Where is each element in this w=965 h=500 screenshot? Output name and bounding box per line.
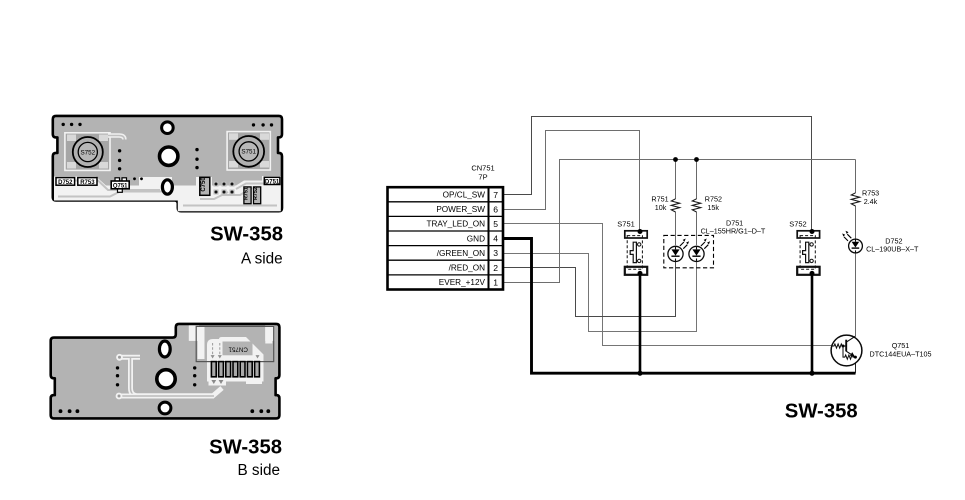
pad grid A bottom middle — [214, 182, 235, 195]
connector body outline B — [196, 326, 274, 361]
hole bottom oval A — [162, 180, 172, 194]
via dots B right column — [193, 366, 196, 386]
hole bottom B — [159, 402, 171, 414]
CN751 island (gray) — [223, 342, 253, 356]
PCB board B outline — [51, 324, 280, 419]
connector region white pour B — [207, 337, 264, 382]
dual LED D751 dashed box — [664, 235, 714, 267]
svg-text:CL–190UB–X–T: CL–190UB–X–T — [866, 244, 919, 253]
wire R751 branch vertical — [675, 160, 677, 246]
junction dot GND/S752 — [809, 371, 814, 376]
svg-text:CN751: CN751 — [471, 164, 494, 173]
via dots A mid-left column — [118, 149, 121, 170]
via dots B left column — [116, 366, 119, 386]
LED D751 red element — [668, 239, 689, 262]
svg-text:S752: S752 — [80, 149, 95, 156]
hole top A — [162, 122, 174, 134]
connector trace columns B — [198, 327, 205, 359]
svg-text:6: 6 — [493, 204, 498, 214]
trace B left loop — [120, 357, 223, 396]
svg-text:OP/CL_SW: OP/CL_SW — [443, 191, 486, 200]
hole middle B — [157, 370, 175, 388]
switch S752 pad area — [65, 133, 110, 171]
wire S752 bottom thick — [811, 272, 814, 373]
switch S752 outer circle — [73, 137, 103, 167]
connector CN751 box — [388, 187, 504, 289]
wire net /RED_ON pin2 to D751 red cathode — [503, 262, 676, 317]
hole top oval B — [159, 341, 170, 357]
wire net POWER_SW pin6 to S751 — [503, 131, 640, 231]
svg-text:CN751: CN751 — [228, 345, 248, 352]
switch S752 corner pads — [67, 135, 108, 169]
via dots A top-right — [252, 123, 273, 126]
svg-text:2: 2 — [493, 263, 498, 273]
small pads near Q751 — [133, 177, 143, 180]
component label R751 (A side, vertical) — [244, 187, 252, 204]
pin hole marks in pour B — [213, 343, 220, 356]
svg-text:/RED_ON: /RED_ON — [449, 264, 485, 273]
component label R753 (A side) — [78, 178, 97, 186]
svg-text:/GREEN_ON: /GREEN_ON — [437, 249, 485, 258]
component label D751 (A side) — [264, 177, 280, 185]
top edge pad cutouts B — [189, 325, 199, 341]
trace band A bottom — [54, 176, 281, 211]
svg-text:A side: A side — [241, 250, 283, 267]
hole middle A — [160, 147, 178, 165]
wire net /GREEN_ON pin3 to D751 green cathode — [503, 254, 697, 332]
svg-text:B side: B side — [237, 462, 280, 479]
switch S751 outer circle — [233, 136, 264, 167]
svg-text:DTC144EUA–T105: DTC144EUA–T105 — [870, 350, 932, 359]
wire R752 branch vertical — [696, 160, 698, 246]
transistor Q751 (A side) — [111, 178, 129, 193]
wire net EVER_+12V pin1 rail — [503, 160, 856, 283]
trace B bottom long — [119, 394, 214, 399]
svg-text:C750: C750 — [201, 177, 207, 192]
component label C750 (A side, vertical) — [200, 177, 210, 196]
svg-text:4: 4 — [493, 234, 498, 244]
switch S751 pad area — [227, 132, 270, 170]
trace lines A bottom — [58, 181, 277, 206]
svg-text:SW-358: SW-358 — [209, 437, 282, 459]
svg-text:CL–155HR/G1–D–T: CL–155HR/G1–D–T — [701, 227, 766, 236]
wire R753/D752/Q751 collector vertical — [855, 160, 857, 337]
svg-text:D751: D751 — [265, 179, 280, 185]
PCB board A outline — [53, 116, 282, 211]
LED D752 — [842, 231, 862, 253]
svg-text:S751: S751 — [617, 219, 635, 228]
LED D751 green element — [689, 239, 710, 262]
via dots A top-left — [62, 123, 82, 126]
svg-text:S751: S751 — [241, 149, 256, 156]
wire net TRAY_LED_ON pin5 to Q751 base — [503, 224, 831, 346]
svg-text:10k: 10k — [655, 203, 667, 212]
pin1 arrows B — [211, 380, 223, 384]
switch S751 inner circle — [239, 142, 258, 161]
svg-text:POWER_SW: POWER_SW — [436, 205, 485, 214]
connector pour lower tabs B — [209, 376, 227, 386]
switch S751 corner pads — [229, 133, 269, 167]
connector pads CN751 B side — [211, 362, 259, 377]
svg-text:SW-358: SW-358 — [210, 223, 283, 245]
svg-text:3: 3 — [493, 248, 498, 258]
svg-text:R752: R752 — [253, 187, 259, 200]
svg-text:TRAY_LED_ON: TRAY_LED_ON — [426, 220, 485, 229]
via dots B bottom-left — [59, 409, 80, 413]
svg-text:7P: 7P — [478, 173, 487, 182]
junction dot GND/S751 — [637, 371, 642, 376]
svg-text:R751: R751 — [244, 187, 250, 200]
component label D752 (A side) — [56, 178, 75, 186]
tact switch S751 — [625, 229, 647, 276]
trace end pads B — [116, 354, 123, 361]
via dots B bottom-right — [250, 409, 270, 413]
component label R752 (A side, vertical) — [253, 187, 261, 204]
tact switch S752 — [797, 229, 819, 276]
switch S752 inner circle — [78, 142, 97, 161]
svg-text:GND: GND — [467, 234, 485, 243]
junction dot rail/R752 — [694, 157, 699, 162]
svg-text:7: 7 — [493, 190, 498, 200]
svg-text:15k: 15k — [707, 203, 719, 212]
wire GND net thick — [503, 239, 856, 374]
svg-text:SW-358: SW-358 — [785, 400, 858, 422]
wire S751 bottom thick — [639, 272, 642, 373]
resistor R752 — [692, 199, 700, 212]
svg-text:5: 5 — [493, 219, 498, 229]
trace stub A upper — [108, 136, 124, 140]
svg-text:Q751: Q751 — [113, 183, 128, 189]
transistor Q751 — [831, 335, 862, 366]
wire Q751 emitter to GND — [855, 357, 857, 373]
svg-text:S752: S752 — [789, 220, 807, 229]
svg-text:2.4k: 2.4k — [864, 197, 878, 206]
via dots A mid-right column — [195, 148, 198, 169]
resistor R751 — [671, 199, 679, 212]
svg-text:1: 1 — [493, 277, 498, 287]
svg-text:D752: D752 — [58, 180, 73, 186]
wire net OP/CL_SW pin7 to S752 — [503, 117, 812, 231]
svg-text:R753: R753 — [80, 180, 95, 186]
resistor R753 — [851, 193, 859, 206]
svg-text:EVER_+12V: EVER_+12V — [439, 278, 486, 287]
junction dot rail/R751 — [673, 157, 678, 162]
